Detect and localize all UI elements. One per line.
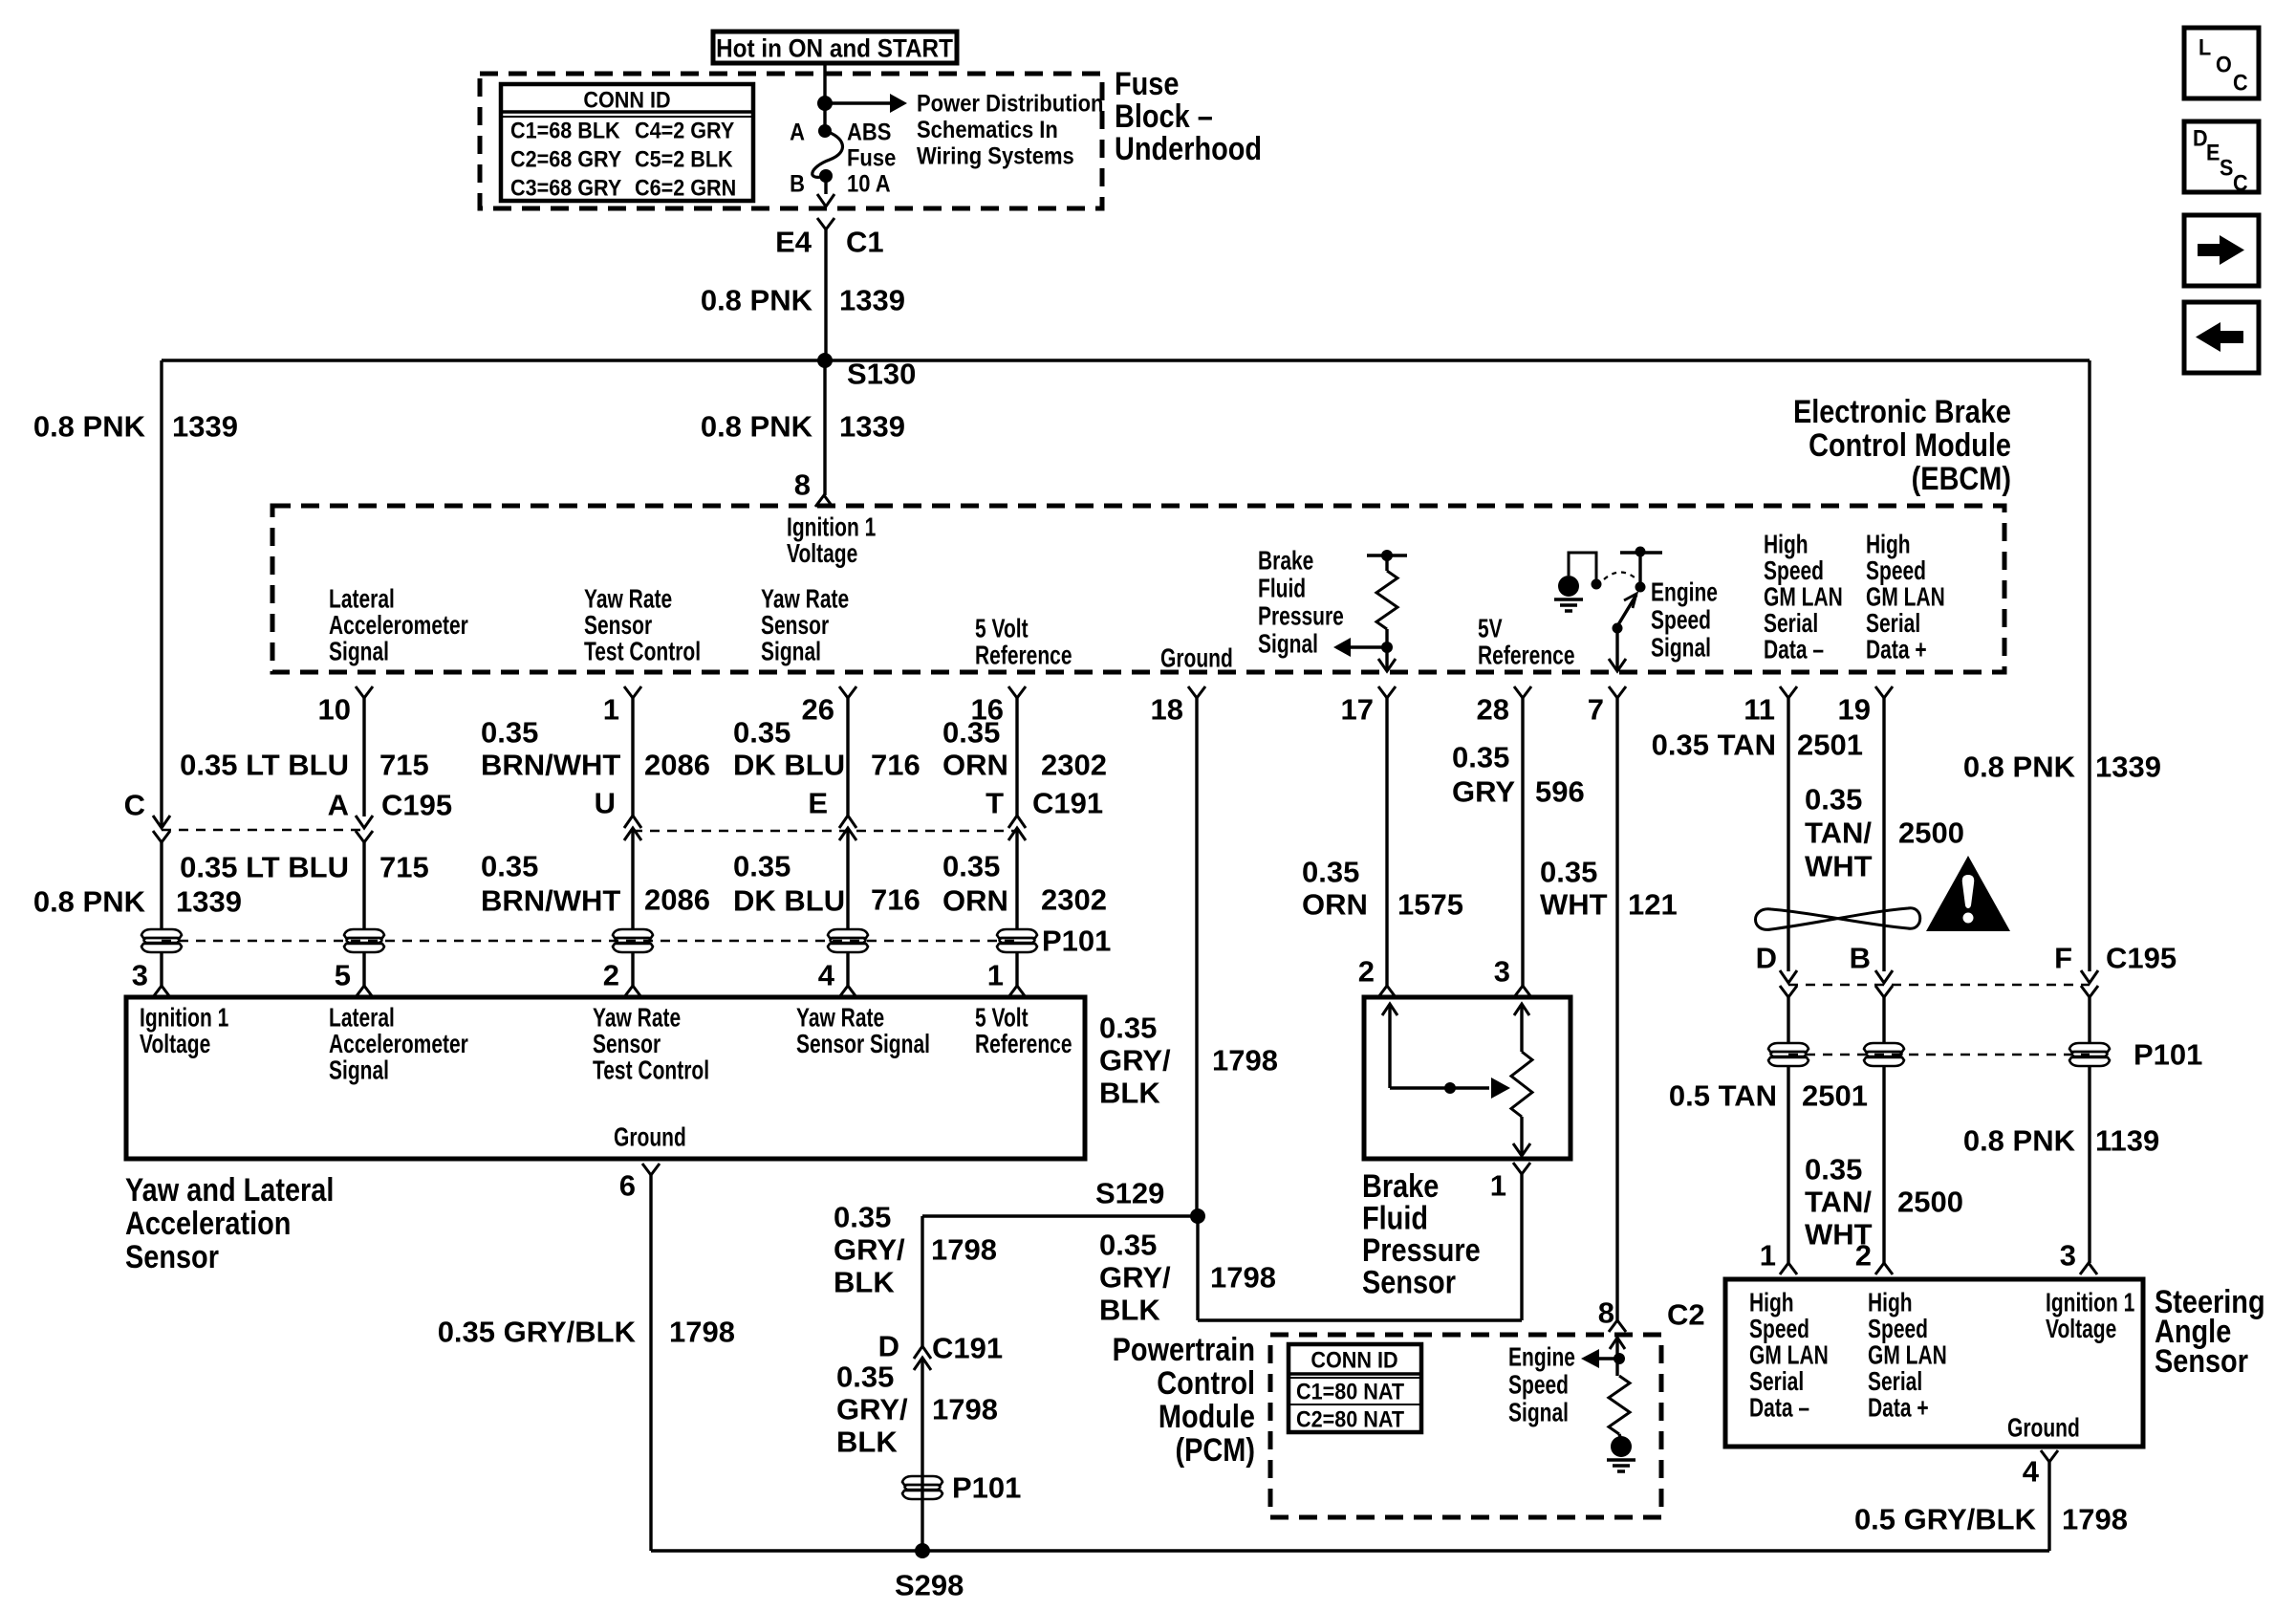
svg-text:GM LAN: GM LAN — [1749, 1341, 1829, 1371]
svg-text:0.35: 0.35 — [1302, 856, 1359, 889]
svg-text:C6=2 GRN: C6=2 GRN — [635, 174, 736, 200]
svg-text:Voltage: Voltage — [140, 1030, 210, 1059]
svg-text:C1=80 NAT: C1=80 NAT — [1296, 1378, 1404, 1404]
svg-text:Data +: Data + — [1868, 1394, 1929, 1424]
svg-text:1: 1 — [1760, 1239, 1776, 1273]
svg-text:High: High — [1866, 531, 1911, 560]
svg-text:5 Volt: 5 Volt — [975, 615, 1029, 644]
svg-text:Signal: Signal — [1651, 634, 1711, 664]
svg-text:E: E — [2206, 139, 2220, 164]
svg-text:0.35: 0.35 — [733, 850, 791, 883]
svg-text:Wiring Systems: Wiring Systems — [917, 142, 1074, 169]
svg-text:GRY/: GRY/ — [834, 1233, 905, 1267]
svg-text:1798: 1798 — [931, 1233, 997, 1267]
svg-text:0.35: 0.35 — [733, 716, 791, 750]
svg-text:0.8 PNK: 0.8 PNK — [1963, 751, 2076, 784]
svg-text:2302: 2302 — [1041, 749, 1107, 782]
svg-text:Lateral: Lateral — [329, 585, 395, 615]
svg-text:2501: 2501 — [1797, 729, 1863, 762]
svg-text:C191: C191 — [1032, 787, 1103, 820]
svg-text:715: 715 — [379, 851, 429, 884]
svg-text:CONN ID: CONN ID — [583, 86, 670, 112]
svg-text:Test Control: Test Control — [593, 1056, 709, 1086]
svg-text:3: 3 — [132, 959, 148, 992]
svg-text:E: E — [808, 787, 828, 820]
svg-text:0.8 PNK: 0.8 PNK — [701, 410, 813, 444]
svg-text:0.35: 0.35 — [834, 1201, 891, 1234]
svg-text:17: 17 — [1341, 693, 1374, 727]
svg-text:Electronic Brake: Electronic Brake — [1793, 393, 2011, 430]
svg-text:8: 8 — [794, 468, 811, 502]
svg-text:0.35 GRY/BLK: 0.35 GRY/BLK — [438, 1316, 637, 1349]
svg-text:Module: Module — [1159, 1398, 1255, 1435]
svg-text:0.5 TAN: 0.5 TAN — [1669, 1079, 1777, 1113]
svg-text:1339: 1339 — [2095, 751, 2161, 784]
svg-text:2302: 2302 — [1041, 883, 1107, 917]
svg-text:Yaw Rate: Yaw Rate — [593, 1004, 681, 1034]
svg-text:2: 2 — [1855, 1239, 1872, 1273]
svg-text:Ignition 1: Ignition 1 — [2046, 1289, 2134, 1318]
svg-text:7: 7 — [1588, 693, 1604, 727]
svg-text:Engine: Engine — [1651, 578, 1718, 608]
svg-text:A: A — [328, 789, 349, 822]
svg-text:BLK: BLK — [1099, 1077, 1160, 1110]
svg-text:High: High — [1749, 1289, 1794, 1318]
svg-text:C2=80 NAT: C2=80 NAT — [1296, 1405, 1404, 1431]
svg-text:0.35 TAN: 0.35 TAN — [1652, 729, 1776, 762]
svg-text:3: 3 — [2060, 1239, 2076, 1273]
svg-text:A: A — [790, 119, 805, 145]
svg-text:Speed: Speed — [1868, 1315, 1928, 1344]
svg-text:Yaw Rate: Yaw Rate — [796, 1004, 884, 1034]
svg-text:Control Module: Control Module — [1809, 426, 2011, 464]
svg-text:Voltage: Voltage — [787, 539, 857, 569]
svg-text:0.35: 0.35 — [836, 1361, 894, 1394]
svg-text:0.35 LT BLU: 0.35 LT BLU — [180, 851, 349, 884]
svg-text:Yaw Rate: Yaw Rate — [761, 585, 849, 615]
svg-text:ORN: ORN — [942, 749, 1008, 782]
svg-text:715: 715 — [379, 749, 429, 782]
svg-text:Reference: Reference — [975, 642, 1072, 671]
svg-text:S129: S129 — [1095, 1177, 1164, 1210]
svg-text:Ground: Ground — [1160, 644, 1233, 674]
svg-text:0.35: 0.35 — [1805, 1153, 1862, 1186]
svg-text:C195: C195 — [381, 789, 452, 822]
svg-text:GRY: GRY — [1452, 775, 1515, 809]
svg-text:TAN/: TAN/ — [1805, 1186, 1872, 1219]
svg-text:Yaw Rate: Yaw Rate — [584, 585, 672, 615]
svg-text:5V: 5V — [1478, 615, 1503, 644]
svg-text:T: T — [986, 787, 1004, 820]
svg-text:Accelerometer: Accelerometer — [329, 1030, 468, 1059]
svg-text:1575: 1575 — [1397, 888, 1463, 922]
svg-text:1: 1 — [603, 693, 619, 727]
svg-text:0.35: 0.35 — [942, 716, 1000, 750]
svg-text:Signal: Signal — [329, 1056, 389, 1086]
svg-text:1: 1 — [1490, 1169, 1506, 1203]
svg-text:4: 4 — [818, 959, 835, 992]
svg-text:716: 716 — [871, 883, 921, 917]
svg-text:C2: C2 — [1667, 1298, 1705, 1332]
svg-text:O: O — [2216, 51, 2232, 76]
svg-text:2086: 2086 — [644, 749, 710, 782]
svg-text:S130: S130 — [847, 358, 916, 391]
svg-text:TAN/: TAN/ — [1805, 816, 1872, 850]
svg-text:BLK: BLK — [836, 1426, 898, 1459]
svg-text:18: 18 — [1151, 693, 1183, 727]
svg-text:C191: C191 — [932, 1332, 1003, 1365]
svg-text:Sensor: Sensor — [761, 611, 829, 641]
svg-text:Serial: Serial — [1866, 609, 1920, 639]
svg-text:C5=2 BLK: C5=2 BLK — [635, 145, 733, 171]
svg-text:Engine: Engine — [1508, 1343, 1575, 1373]
svg-text:10: 10 — [318, 693, 351, 727]
svg-text:Acceleration: Acceleration — [125, 1205, 291, 1242]
svg-text:Pressure: Pressure — [1258, 602, 1344, 632]
svg-text:Data +: Data + — [1866, 636, 1927, 665]
svg-text:0.8 PNK: 0.8 PNK — [33, 410, 146, 444]
svg-text:Powertrain: Powertrain — [1113, 1331, 1255, 1368]
svg-text:Speed: Speed — [1866, 556, 1926, 586]
svg-text:ORN: ORN — [942, 884, 1008, 918]
svg-text:5: 5 — [335, 959, 351, 992]
svg-text:Ground: Ground — [2007, 1414, 2080, 1444]
svg-text:Hot in ON and START: Hot in ON and START — [716, 34, 953, 62]
svg-text:0.35: 0.35 — [1099, 1012, 1157, 1045]
svg-text:2501: 2501 — [1802, 1079, 1868, 1113]
svg-text:1798: 1798 — [1212, 1044, 1278, 1078]
svg-text:F: F — [2054, 942, 2072, 975]
svg-text:Signal: Signal — [1258, 630, 1318, 660]
svg-text:ABS: ABS — [847, 119, 891, 145]
svg-text:WHT: WHT — [1540, 888, 1608, 922]
svg-text:Brake: Brake — [1258, 547, 1313, 577]
svg-text:DK BLU: DK BLU — [733, 884, 845, 918]
svg-text:3: 3 — [1494, 955, 1510, 989]
svg-text:6: 6 — [619, 1169, 636, 1203]
svg-text:Sensor: Sensor — [1362, 1263, 1456, 1300]
svg-text:1139: 1139 — [2095, 1124, 2159, 1158]
svg-text:2086: 2086 — [644, 883, 710, 917]
svg-text:U: U — [595, 787, 616, 820]
svg-text:5 Volt: 5 Volt — [975, 1004, 1029, 1034]
svg-text:Fuse: Fuse — [1115, 65, 1179, 102]
svg-text:P101: P101 — [2134, 1038, 2202, 1072]
svg-text:Fuse: Fuse — [847, 144, 896, 171]
svg-text:High: High — [1868, 1289, 1913, 1318]
svg-text:C: C — [2233, 69, 2248, 95]
svg-text:Ignition 1: Ignition 1 — [140, 1004, 228, 1034]
svg-text:Lateral: Lateral — [329, 1004, 395, 1034]
svg-text:Sensor: Sensor — [2155, 1342, 2248, 1380]
svg-text:Underhood: Underhood — [1115, 130, 1262, 167]
svg-text:2500: 2500 — [1898, 816, 1964, 850]
svg-text:Serial: Serial — [1749, 1367, 1804, 1397]
svg-text:Sensor: Sensor — [584, 611, 652, 641]
svg-text:Reference: Reference — [975, 1030, 1072, 1059]
svg-text:WHT: WHT — [1805, 850, 1873, 883]
svg-text:C2=68 GRY: C2=68 GRY — [510, 145, 621, 171]
svg-text:D: D — [878, 1330, 899, 1363]
svg-text:L: L — [2199, 33, 2211, 59]
svg-text:Sensor Signal: Sensor Signal — [796, 1030, 930, 1059]
svg-text:Serial: Serial — [1764, 609, 1818, 639]
svg-text:Sensor: Sensor — [125, 1238, 219, 1275]
svg-text:Voltage: Voltage — [2046, 1315, 2116, 1344]
svg-text:2: 2 — [603, 959, 619, 992]
svg-text:2500: 2500 — [1897, 1186, 1963, 1219]
svg-text:C195: C195 — [2106, 942, 2177, 975]
svg-text:1339: 1339 — [839, 284, 905, 317]
svg-text:0.35: 0.35 — [1540, 856, 1597, 889]
svg-text:GRY/: GRY/ — [1099, 1044, 1171, 1078]
svg-text:BLK: BLK — [1099, 1294, 1160, 1327]
svg-text:1798: 1798 — [2062, 1503, 2128, 1536]
svg-text:CONN ID: CONN ID — [1310, 1346, 1397, 1372]
svg-text:Speed: Speed — [1508, 1371, 1569, 1401]
svg-text:0.35: 0.35 — [942, 850, 1000, 883]
svg-text:E4: E4 — [775, 226, 812, 259]
svg-text:BRN/WHT: BRN/WHT — [481, 749, 620, 782]
svg-text:GM LAN: GM LAN — [1868, 1341, 1947, 1371]
svg-text:Schematics In: Schematics In — [917, 117, 1058, 143]
svg-text:28: 28 — [1477, 693, 1509, 727]
svg-text:716: 716 — [871, 749, 921, 782]
svg-text:0.35 LT BLU: 0.35 LT BLU — [180, 749, 349, 782]
svg-text:11: 11 — [1744, 693, 1775, 727]
svg-text:S298: S298 — [895, 1569, 964, 1602]
svg-text:C3=68 GRY: C3=68 GRY — [510, 174, 621, 200]
svg-text:0.35: 0.35 — [1452, 741, 1509, 774]
svg-text:GM LAN: GM LAN — [1764, 583, 1843, 613]
svg-text:Ignition 1: Ignition 1 — [787, 513, 876, 543]
svg-text:DK BLU: DK BLU — [733, 749, 845, 782]
svg-text:Test Control: Test Control — [584, 638, 701, 667]
svg-text:ORN: ORN — [1302, 888, 1368, 922]
svg-text:Reference: Reference — [1478, 642, 1575, 671]
svg-text:C: C — [124, 789, 145, 822]
svg-text:BLK: BLK — [834, 1266, 895, 1299]
svg-text:B: B — [1850, 942, 1871, 975]
svg-text:C1: C1 — [846, 226, 884, 259]
svg-text:C4=2 GRY: C4=2 GRY — [635, 117, 734, 142]
svg-text:121: 121 — [1628, 888, 1678, 922]
svg-text:Accelerometer: Accelerometer — [329, 611, 468, 641]
svg-text:1798: 1798 — [669, 1316, 735, 1349]
svg-text:Block –: Block – — [1115, 98, 1213, 135]
svg-text:S: S — [2220, 154, 2233, 180]
svg-text:0.35: 0.35 — [481, 716, 538, 750]
svg-text:C1=68 BLK: C1=68 BLK — [510, 117, 620, 142]
svg-text:D: D — [1756, 942, 1777, 975]
svg-text:C: C — [2233, 169, 2248, 195]
svg-text:4: 4 — [2023, 1455, 2040, 1489]
svg-text:0.35: 0.35 — [1805, 783, 1862, 816]
svg-text:GRY/: GRY/ — [1099, 1261, 1171, 1295]
svg-text:BRN/WHT: BRN/WHT — [481, 884, 620, 918]
svg-text:1798: 1798 — [932, 1393, 998, 1426]
svg-text:1798: 1798 — [1210, 1261, 1276, 1295]
svg-text:Signal: Signal — [761, 638, 821, 667]
svg-text:2: 2 — [1358, 955, 1375, 989]
svg-text:P101: P101 — [952, 1471, 1021, 1505]
svg-text:Speed: Speed — [1764, 556, 1824, 586]
svg-text:8: 8 — [1598, 1296, 1614, 1330]
svg-text:1: 1 — [987, 959, 1004, 992]
svg-text:Speed: Speed — [1651, 606, 1711, 636]
svg-text:26: 26 — [802, 693, 834, 727]
svg-text:Data –: Data – — [1749, 1394, 1809, 1424]
svg-text:0.8 PNK: 0.8 PNK — [701, 284, 813, 317]
svg-text:1339: 1339 — [176, 885, 242, 919]
svg-text:GRY/: GRY/ — [836, 1393, 908, 1426]
svg-text:Speed: Speed — [1749, 1315, 1809, 1344]
svg-text:B: B — [790, 170, 805, 197]
svg-text:0.35: 0.35 — [481, 850, 538, 883]
svg-text:Data –: Data – — [1764, 636, 1824, 665]
svg-text:Yaw and Lateral: Yaw and Lateral — [125, 1171, 334, 1208]
svg-text:Power Distribution: Power Distribution — [917, 90, 1103, 117]
svg-text:0.35: 0.35 — [1099, 1229, 1157, 1262]
svg-text:0.5 GRY/BLK: 0.5 GRY/BLK — [1854, 1503, 2037, 1536]
svg-text:Signal: Signal — [329, 638, 389, 667]
svg-text:Control: Control — [1157, 1364, 1255, 1402]
svg-text:0.8 PNK: 0.8 PNK — [33, 885, 146, 919]
svg-text:1339: 1339 — [172, 410, 238, 444]
svg-text:Fluid: Fluid — [1258, 575, 1306, 604]
svg-text:10 A: 10 A — [847, 170, 891, 197]
svg-text:1339: 1339 — [839, 410, 905, 444]
svg-text:Signal: Signal — [1508, 1399, 1569, 1428]
svg-text:(PCM): (PCM) — [1176, 1431, 1255, 1469]
svg-text:High: High — [1764, 531, 1809, 560]
svg-text:(EBCM): (EBCM) — [1912, 460, 2011, 497]
svg-text:GM LAN: GM LAN — [1866, 583, 1945, 613]
svg-text:Serial: Serial — [1868, 1367, 1922, 1397]
svg-text:596: 596 — [1535, 775, 1585, 809]
svg-text:19: 19 — [1838, 693, 1871, 727]
svg-text:Sensor: Sensor — [593, 1030, 661, 1059]
svg-text:0.8 PNK: 0.8 PNK — [1963, 1124, 2076, 1158]
svg-text:Ground: Ground — [614, 1123, 686, 1153]
svg-text:P101: P101 — [1042, 925, 1111, 958]
